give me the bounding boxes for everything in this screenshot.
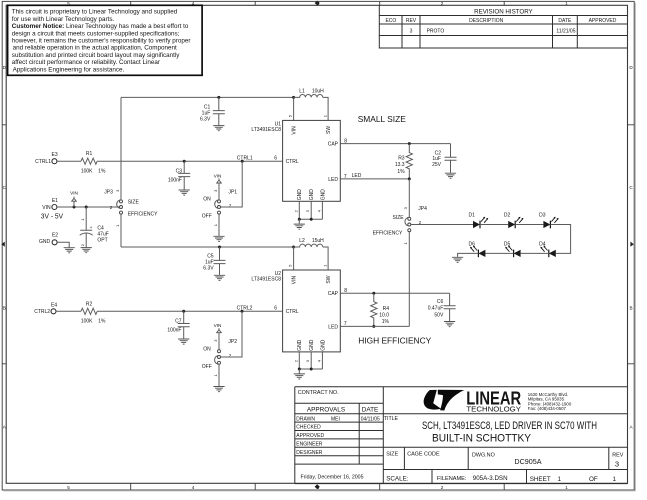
junction R3 bottom — [408, 177, 411, 180]
svg-text:1: 1 — [565, 485, 568, 490]
svg-text:C7: C7 — [175, 319, 182, 325]
svg-text:ENGINEER: ENGINEER — [296, 442, 323, 448]
zone ticks bottom — [131, 483, 505, 490]
svg-text:4: 4 — [192, 485, 195, 490]
svg-text:10uH: 10uH — [312, 89, 324, 95]
wire D5-D6 — [485, 252, 513, 254]
ground (JP1) — [213, 236, 224, 241]
wire E3 to R1 — [57, 160, 81, 162]
svg-text:100K: 100K — [81, 319, 93, 325]
junction L2/pin5 — [292, 246, 295, 249]
svg-text:R2: R2 — [86, 301, 93, 307]
zone letters right — [629, 65, 633, 430]
svg-text:SMALL SIZE: SMALL SIZE — [358, 114, 407, 124]
junction VIN arrow tap — [73, 206, 76, 209]
svg-text:ECO: ECO — [385, 18, 396, 24]
svg-text:25V: 25V — [432, 162, 442, 168]
svg-text:substitution and printed circu: substitution and printed circuit board l… — [12, 52, 181, 59]
svg-text:JP4: JP4 — [418, 206, 427, 212]
zone digits bottom — [67, 485, 568, 490]
U1 GND pin wires — [299, 201, 322, 219]
resistor R3 — [406, 144, 412, 178]
svg-text:VIN: VIN — [214, 323, 222, 328]
svg-text:R3: R3 — [398, 156, 405, 162]
wire D1-D2 — [480, 224, 508, 226]
wire E2 to ground — [57, 242, 69, 247]
svg-text:L2: L2 — [299, 238, 305, 244]
svg-text:VIN: VIN — [292, 275, 298, 284]
svg-text:10.0: 10.0 — [379, 313, 389, 319]
wire D3 to right elbow down to D4 — [550, 225, 570, 254]
ground (C2) — [445, 173, 456, 178]
junction C4 tap — [85, 206, 88, 209]
svg-text:SIZE: SIZE — [128, 199, 140, 205]
svg-text:B: B — [3, 306, 6, 311]
svg-text:CAP: CAP — [328, 291, 339, 297]
svg-text:SW: SW — [326, 275, 332, 283]
svg-text:DATE: DATE — [362, 407, 379, 414]
svg-text:3: 3 — [410, 29, 413, 35]
svg-text:+: + — [90, 226, 93, 231]
wire D4-D5 — [521, 252, 549, 254]
svg-text:C6: C6 — [437, 299, 444, 305]
svg-text:HIGH EFFICIENCY: HIGH EFFICIENCY — [358, 335, 431, 345]
svg-text:2: 2 — [441, 1, 444, 6]
wire R1 to U1 CTRL — [97, 160, 282, 162]
node CTRL2 junction — [241, 310, 244, 313]
svg-text:LED: LED — [328, 324, 338, 330]
svg-text:15uH: 15uH — [312, 238, 324, 244]
wire JP3 pin1 to rail2 — [120, 214, 122, 247]
svg-text:GND: GND — [297, 339, 303, 351]
junction C5 tap — [218, 246, 221, 249]
capacitor C2 — [445, 144, 457, 173]
svg-text:CTRL: CTRL — [286, 309, 299, 315]
svg-text:VIN: VIN — [42, 205, 51, 211]
svg-text:GND: GND — [320, 339, 326, 351]
svg-text:CTRL2: CTRL2 — [237, 306, 253, 312]
svg-text:BUILT-IN SCHOTTKY: BUILT-IN SCHOTTKY — [432, 433, 531, 445]
U2 GND pin wires — [299, 352, 322, 369]
junction R4 bottom — [372, 325, 375, 328]
zone letters left — [3, 65, 7, 430]
capacitor C5 — [214, 247, 226, 275]
ground (U1) — [298, 219, 300, 224]
svg-text:6.3V: 6.3V — [200, 116, 211, 122]
svg-text:3: 3 — [317, 485, 320, 490]
ground (JP2) — [213, 387, 224, 392]
capacitor C7 — [178, 311, 190, 338]
svg-text:TECHNOLOGY: TECHNOLOGY — [466, 406, 521, 413]
svg-text:PROTO: PROTO — [427, 29, 445, 35]
svg-text:DWG.NO: DWG.NO — [472, 452, 495, 458]
svg-text:DESCRIPTION: DESCRIPTION — [469, 18, 504, 24]
svg-text:OFF: OFF — [202, 214, 212, 220]
resistor R2 — [81, 308, 97, 314]
svg-text:design a circuit that meets cu: design a circuit that meets customer-sup… — [12, 30, 180, 37]
svg-text:100K: 100K — [81, 169, 93, 175]
terminal E2 — [52, 240, 57, 245]
svg-text:This circuit is proprietary to: This circuit is proprietary to Linear Te… — [12, 9, 178, 16]
resistor R4 — [371, 293, 377, 326]
ground (C5) — [214, 275, 225, 280]
svg-text:SIZE: SIZE — [386, 451, 398, 457]
svg-text:LT3491ESC8: LT3491ESC8 — [251, 277, 281, 283]
svg-text:APPROVED: APPROVED — [296, 433, 324, 439]
ground (C1) — [213, 126, 224, 131]
svg-text:6: 6 — [274, 156, 277, 162]
wire JP2 pin1 to ground — [218, 364, 220, 386]
svg-text:APPROVALS: APPROVALS — [307, 407, 345, 414]
net VIN rail (top) wire — [121, 96, 294, 98]
wire U2 CAP net — [340, 292, 449, 294]
wire JP1 pin1 to ground — [218, 214, 220, 236]
svg-text:6.3V: 6.3V — [203, 265, 214, 271]
svg-text:CTRL1: CTRL1 — [35, 159, 51, 165]
svg-text:REV: REV — [406, 18, 417, 24]
wire JP2 pin2 to CTRL2 — [221, 311, 243, 357]
svg-text:1%: 1% — [382, 319, 390, 325]
svg-text:1%: 1% — [98, 169, 106, 175]
svg-text:CHECKED: CHECKED — [296, 425, 321, 431]
TITLEBLOCK — [295, 387, 628, 484]
svg-text:EFFICIENCY: EFFICIENCY — [128, 212, 158, 218]
svg-text:GND: GND — [320, 189, 326, 201]
svg-text:04/11/05: 04/11/05 — [361, 416, 380, 422]
junction C3 tap — [183, 160, 186, 163]
svg-text:E2: E2 — [52, 233, 58, 239]
svg-text:REV: REV — [612, 452, 623, 458]
inductor L1 — [294, 95, 329, 121]
wire JP4 pin1 down to U2 LED net — [408, 232, 410, 327]
junction R3 top — [408, 142, 411, 145]
svg-text:R1: R1 — [86, 151, 93, 157]
svg-text:7: 7 — [344, 321, 347, 327]
zone ticks left — [2, 125, 6, 364]
svg-text:affect circuit performance or: affect circuit performance or reliabilit… — [12, 59, 160, 66]
svg-text:6: 6 — [274, 306, 277, 312]
svg-text:SHEET: SHEET — [530, 476, 551, 483]
svg-text:0.47uF: 0.47uF — [428, 306, 444, 312]
wire R2 to U2 CTRL — [97, 310, 282, 312]
centre diamond markers — [315, 1, 320, 6]
svg-text:and reliable operation in the: and reliable operation in the actual app… — [13, 45, 177, 52]
capacitor C6 — [444, 293, 456, 321]
logo address — [528, 392, 572, 411]
svg-text:8: 8 — [344, 288, 347, 294]
capacitor C4 (polarized) — [80, 207, 92, 230]
ground (LED chain) — [452, 257, 463, 262]
logo: LT mark — [424, 390, 465, 411]
svg-text:CAGE CODE: CAGE CODE — [407, 451, 440, 457]
svg-text:FILENAME:: FILENAME: — [437, 476, 467, 482]
svg-text:CTRL: CTRL — [286, 159, 299, 165]
svg-text:SCH, LT3491ESC8, LED DRIVER I: SCH, LT3491ESC8, LED DRIVER IN SC70 WITH — [422, 420, 597, 432]
svg-text:1%: 1% — [397, 169, 405, 175]
net VIN rail2 (EFFICIENCY) wire — [121, 246, 294, 248]
svg-text:5: 5 — [67, 485, 70, 490]
svg-text:Friday, December 16, 2005: Friday, December 16, 2005 — [301, 474, 364, 480]
jumper JP2 — [218, 350, 221, 353]
zone digits top — [67, 1, 568, 6]
svg-text:SCALE:: SCALE: — [386, 475, 409, 482]
jumper JP3 — [120, 97, 122, 199]
svg-text:LED: LED — [352, 173, 362, 179]
node CTRL1 junction — [241, 160, 244, 163]
svg-text:LT3491ESC8: LT3491ESC8 — [251, 127, 281, 133]
svg-text:LED: LED — [328, 177, 338, 183]
svg-text:DC905A: DC905A — [514, 457, 541, 466]
svg-text:100nF: 100nF — [168, 178, 182, 184]
svg-text:CONTRACT NO.: CONTRACT NO. — [298, 390, 339, 396]
svg-text:Customer Notice: Linear Techno: Customer Notice: Linear Technology has m… — [12, 23, 189, 30]
svg-text:2: 2 — [441, 485, 444, 490]
svg-text:VIN: VIN — [70, 190, 78, 195]
wire U2 LED net — [340, 325, 409, 327]
svg-text:SIZE: SIZE — [392, 215, 404, 221]
ground (U2) — [298, 369, 300, 374]
pin 5 stub U2 — [293, 247, 295, 270]
svg-text:D3: D3 — [539, 212, 546, 218]
wire LED net to JP4 — [408, 179, 410, 217]
svg-text:E4: E4 — [51, 302, 57, 308]
svg-text:R4: R4 — [383, 306, 390, 312]
svg-text:TITLE: TITLE — [384, 416, 399, 422]
jumper JP1 — [218, 200, 221, 203]
zone ticks top — [131, 1, 505, 5]
svg-text:GND: GND — [309, 339, 315, 351]
wire E4 to R2 — [56, 310, 81, 312]
terminal E3 — [52, 159, 57, 164]
svg-text:however, it remains the custom: however, it remains the customer's respo… — [12, 38, 191, 45]
ground (C3) — [179, 190, 190, 195]
zone ticks right — [628, 125, 635, 364]
capacitor C1 — [213, 97, 225, 125]
svg-text:OF: OF — [589, 476, 598, 483]
title block grid — [295, 387, 628, 484]
REVISION HISTORY table — [379, 5, 627, 48]
svg-text:GND: GND — [39, 239, 51, 245]
svg-text:DRAWN: DRAWN — [296, 416, 315, 422]
svg-text:MEI: MEI — [331, 417, 340, 423]
jumper JP4 — [408, 217, 411, 220]
svg-text:VIN: VIN — [214, 173, 222, 178]
svg-text:E3: E3 — [52, 152, 58, 158]
svg-text:1%: 1% — [98, 319, 106, 325]
junction C7 tap — [182, 310, 185, 313]
svg-text:50V: 50V — [434, 312, 444, 318]
svg-text:13.3: 13.3 — [395, 162, 405, 168]
svg-text:OFF: OFF — [202, 364, 212, 370]
svg-text:1: 1 — [565, 1, 568, 6]
svg-text:100nF: 100nF — [167, 328, 181, 334]
resistor R1 — [81, 158, 97, 164]
svg-text:OPT: OPT — [97, 237, 107, 243]
NOTICE box — [8, 5, 203, 75]
svg-text:B: B — [629, 306, 632, 311]
wire D6 to ground — [458, 253, 479, 257]
svg-text:DESIGNER: DESIGNER — [296, 450, 323, 456]
op-amp U2 LT3491ESC8 — [283, 270, 341, 352]
svg-text:JP3: JP3 — [104, 189, 113, 195]
svg-text:ON: ON — [203, 346, 211, 352]
svg-text:7: 7 — [344, 174, 347, 180]
svg-text:11/21/05: 11/21/05 — [556, 29, 575, 35]
junction L1/pin5 — [292, 96, 295, 99]
svg-text:CTRL1: CTRL1 — [237, 155, 253, 161]
svg-text:CAP: CAP — [328, 142, 339, 148]
ground (E2) — [64, 248, 75, 253]
wire E1 to JP3 pin2 — [57, 206, 120, 208]
svg-text:CTRL2: CTRL2 — [34, 309, 50, 315]
svg-text:JP1: JP1 — [228, 189, 237, 195]
svg-text:8: 8 — [344, 138, 347, 144]
svg-text:D2: D2 — [504, 212, 511, 218]
svg-text:GND: GND — [297, 189, 303, 201]
svg-text:APPROVED: APPROVED — [589, 18, 617, 24]
wire JP1 pin2 to CTRL1 — [221, 161, 243, 207]
svg-text:3: 3 — [615, 460, 619, 469]
svg-text:VIN: VIN — [292, 126, 298, 135]
svg-text:Applications Engineering for a: Applications Engineering for assistance. — [13, 66, 125, 73]
capacitor C3 — [178, 161, 190, 189]
svg-text:1: 1 — [558, 476, 562, 483]
svg-text:SW: SW — [326, 126, 332, 134]
svg-text:for use with Linear Technology: for use with Linear Technology parts. — [12, 16, 115, 23]
terminal E4 — [51, 309, 56, 314]
ground (C4) — [81, 248, 92, 253]
svg-text:Fax: (408)434-0507: Fax: (408)434-0507 — [528, 406, 567, 411]
svg-text:1: 1 — [613, 476, 617, 483]
svg-text:EFFICIENCY: EFFICIENCY — [373, 231, 403, 237]
svg-text:JP2: JP2 — [228, 339, 237, 345]
svg-text:E1: E1 — [52, 198, 58, 204]
junction C1 tap — [217, 96, 220, 99]
svg-text:GND: GND — [309, 189, 315, 201]
wire U1 CAP net — [340, 143, 450, 145]
svg-text:ON: ON — [203, 197, 211, 203]
ground (C6) — [444, 322, 455, 327]
pin 5 stub U1 — [293, 97, 295, 120]
svg-text:C3: C3 — [176, 169, 183, 175]
svg-text:D1: D1 — [469, 212, 476, 218]
svg-text:3V - 5V: 3V - 5V — [41, 212, 63, 221]
wire JP4 pin2 to LED chain — [411, 224, 473, 226]
terminal E1 — [52, 205, 57, 210]
svg-text:3: 3 — [317, 1, 320, 6]
wire D2-D3 — [515, 224, 543, 226]
inductor L2 — [294, 244, 329, 270]
ground (C7) — [178, 339, 189, 344]
wire U1 LED net — [340, 178, 409, 180]
junction R4 top — [372, 292, 375, 295]
svg-text:DATE: DATE — [558, 18, 572, 24]
svg-text:905A-3.DSN: 905A-3.DSN — [473, 475, 508, 482]
svg-text:REVISION HISTORY: REVISION HISTORY — [474, 8, 533, 15]
op-amp U1 LT3491ESC8 — [283, 120, 341, 201]
svg-text:L1: L1 — [299, 89, 305, 95]
